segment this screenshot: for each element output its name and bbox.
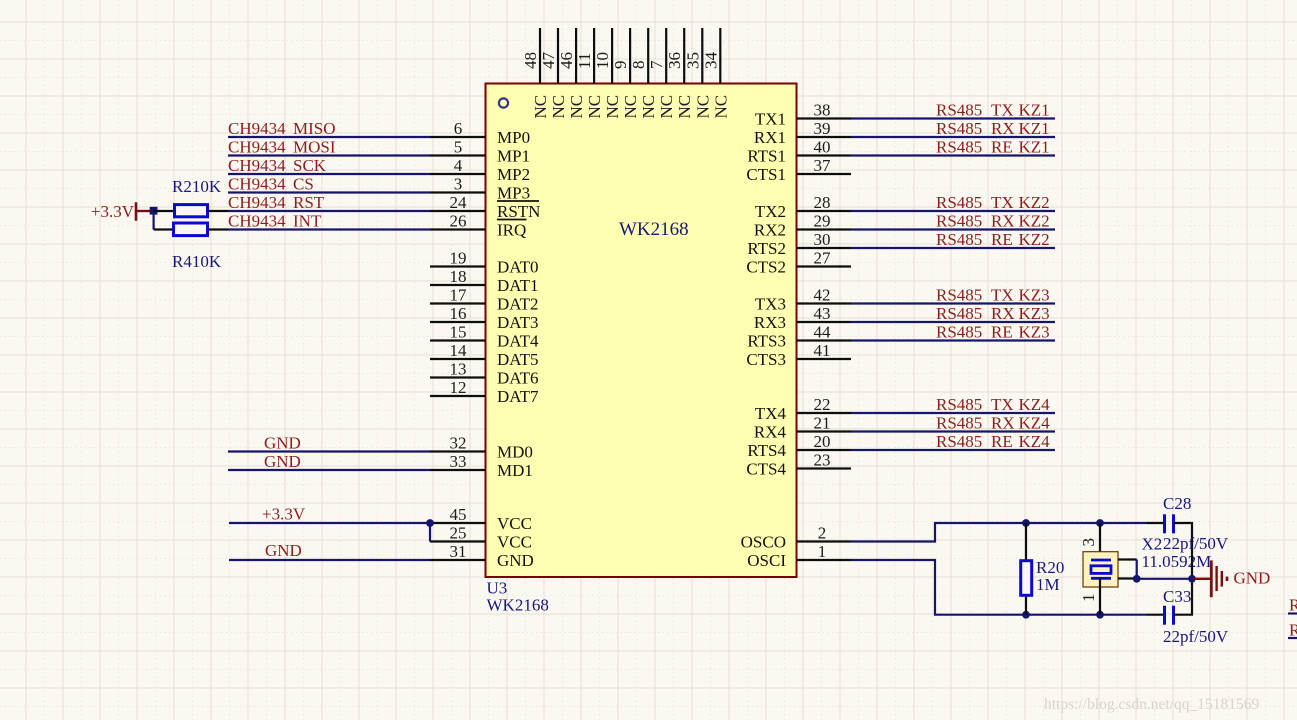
svg-text:RS485RXKZ3: RS485RXKZ3 (936, 304, 1050, 323)
svg-text:NC: NC (675, 95, 694, 119)
U3 pin 5 MP1 (left) (430, 138, 530, 166)
wire net RS485_RX_KZ4 (851, 430, 1055, 432)
svg-text:NC: NC (711, 95, 730, 119)
wire VCC45 to VCC25 (429, 523, 431, 542)
svg-text:1M: 1M (1036, 575, 1060, 594)
wire net CH9434_SCK (228, 173, 430, 175)
svg-text:39: 39 (814, 119, 831, 138)
U3 pin 25 VCC (left) (430, 524, 532, 552)
crystal X2 case pin upper (1118, 558, 1137, 560)
U3 pin 15 DAT4 (left) (430, 323, 539, 351)
U3 pin 24 RSTN (left) (430, 193, 540, 221)
wire net CH9434_RST (228, 210, 430, 212)
U3 pin 20 RTS4 (right) (747, 432, 851, 460)
wire net RS485_TX_KZ1 (851, 117, 1055, 119)
svg-text:10: 10 (593, 52, 612, 69)
U3 pin 36 (NC, top) (665, 28, 694, 119)
svg-text:21: 21 (814, 414, 831, 433)
U3 pin 2 OSCO (right) (741, 524, 851, 552)
svg-text:47: 47 (539, 52, 558, 70)
svg-text:DAT3: DAT3 (497, 313, 539, 332)
U3 pin 9 (NC, top) (611, 28, 640, 119)
svg-text:46: 46 (557, 52, 576, 69)
svg-text:RS485TXKZ3: RS485TXKZ3 (936, 286, 1050, 305)
junction node +3.3V/R2/R4 (150, 207, 158, 215)
U3 pin 42 TX3 (right) (755, 286, 851, 314)
svg-text:NC: NC (549, 95, 568, 119)
svg-text:14: 14 (450, 341, 468, 360)
svg-text:TX3: TX3 (755, 295, 786, 314)
svg-text:CTS3: CTS3 (746, 350, 786, 369)
svg-text:RS485REKZ2: RS485REKZ2 (936, 230, 1050, 249)
wire net RS485_TX_KZ4 (851, 412, 1055, 414)
svg-text:DAT5: DAT5 (497, 350, 539, 369)
svg-text:37: 37 (814, 156, 832, 175)
wire net +3.3V to VCC (229, 522, 430, 524)
svg-text:RTS3: RTS3 (747, 332, 786, 351)
resistor R20 pin 2 (1025, 597, 1027, 615)
svg-text:GND: GND (1234, 569, 1271, 588)
svg-text:+3.3V: +3.3V (262, 505, 306, 524)
svg-text:17: 17 (450, 286, 468, 305)
svg-text:CTS2: CTS2 (746, 258, 786, 277)
resistor R2 pin 1 (154, 210, 173, 212)
svg-text:NC: NC (657, 95, 676, 119)
wire net GND to pin31 (229, 559, 430, 561)
crystal X2 pin 1 wire (1099, 578, 1101, 614)
svg-text:7: 7 (647, 60, 666, 69)
U3 pin 11 (NC, top) (575, 28, 604, 119)
U3 pin 7 (NC, top) (647, 28, 676, 119)
svg-text:22: 22 (814, 395, 831, 414)
U3 pin 13 DAT6 (left) (430, 360, 539, 388)
U3 pin 12 DAT7 (left) (430, 378, 539, 406)
U3 pin 48 (NC, top) (521, 28, 550, 119)
svg-text:11.0592M: 11.0592M (1142, 552, 1212, 571)
svg-text:DAT7: DAT7 (497, 387, 539, 406)
svg-text:X2: X2 (1142, 535, 1163, 554)
resistor R2 body (175, 205, 208, 217)
svg-text:TX1: TX1 (755, 110, 786, 129)
U3 pin 3 MP3 (left) (430, 175, 530, 203)
U3 pin 40 RTS1 (right) (747, 138, 851, 166)
crystal X2 pin 3 wire (1099, 523, 1101, 560)
U3 pin 26 IRQ (left) (430, 212, 527, 240)
wire net RS485_RE_KZ2 (851, 247, 1055, 249)
svg-text:RTS4: RTS4 (747, 441, 786, 460)
wire net CH9434_MOSI (228, 154, 430, 156)
U3 pin 47 (NC, top) (539, 28, 568, 119)
svg-text:43: 43 (814, 304, 831, 323)
svg-text:29: 29 (814, 212, 831, 231)
wire net RS485_RE_KZ3 (851, 339, 1055, 341)
U3 pin 16 DAT3 (left) (430, 304, 539, 332)
svg-text:22pf/50V: 22pf/50V (1163, 627, 1229, 646)
svg-text:GND: GND (264, 434, 301, 453)
svg-text:33: 33 (450, 452, 467, 471)
U3 pin 41 CTS3 (right) (746, 341, 851, 369)
capacitor C28 pin 2 (1174, 523, 1192, 579)
svg-text:RS485RXKZ2: RS485RXKZ2 (936, 212, 1050, 231)
svg-text:R: R (1289, 596, 1297, 615)
resistor R4 pin 2 (209, 228, 228, 230)
junction node X2 case (1133, 575, 1141, 583)
svg-text:NC: NC (639, 95, 658, 119)
svg-text:OSCO: OSCO (741, 533, 786, 552)
IC U3 WK2168 body (486, 84, 797, 578)
svg-text:31: 31 (450, 542, 467, 561)
svg-text:NC: NC (567, 95, 586, 119)
svg-text:12: 12 (450, 378, 467, 397)
wire net CH9434_CS (228, 191, 430, 193)
svg-text:34: 34 (701, 52, 720, 70)
U3 pin 30 RTS2 (right) (747, 230, 851, 258)
svg-text:CH9434MOSI: CH9434MOSI (228, 138, 336, 157)
svg-text:CH9434MISO: CH9434MISO (228, 119, 336, 138)
svg-text:NC: NC (531, 95, 550, 119)
svg-text:https://blog.csdn.net/qq_15181: https://blog.csdn.net/qq_15181569 (1044, 696, 1260, 713)
svg-text:RS485TXKZ2: RS485TXKZ2 (936, 193, 1050, 212)
svg-text:4: 4 (454, 156, 463, 175)
U3 pin 34 (NC, top) (701, 28, 730, 119)
U3 pin 22 TX4 (right) (755, 395, 851, 423)
svg-text:CH9434CS: CH9434CS (228, 175, 314, 194)
svg-text:MP3: MP3 (497, 184, 530, 203)
svg-text:MD1: MD1 (497, 461, 533, 480)
U3 pin 37 CTS1 (right) (746, 156, 851, 184)
svg-text:35: 35 (683, 52, 702, 69)
svg-text:RX1: RX1 (754, 128, 786, 147)
wire net CH9434_INT (228, 228, 430, 230)
junction node GND rail (1188, 575, 1196, 583)
svg-text:RS485REKZ1: RS485REKZ1 (936, 138, 1050, 157)
svg-text:32: 32 (450, 434, 467, 453)
resistor R20 body (1021, 561, 1032, 596)
svg-text:48: 48 (521, 52, 540, 69)
wire net RS485_TX_KZ2 (851, 210, 1055, 212)
crystal X2 symbol plates (1091, 559, 1111, 562)
resistor R4 pin 1 (154, 228, 172, 230)
svg-text:CH9434INT: CH9434INT (228, 212, 322, 231)
U3 pin 44 RTS3 (right) (747, 323, 851, 351)
svg-text:WK2168: WK2168 (487, 596, 549, 615)
wire net RS485_RE_KZ1 (851, 154, 1055, 156)
capacitor C28 pin 1 (1147, 522, 1164, 524)
U3 pin 18 DAT1 (left) (430, 267, 539, 295)
power port +3.3V (left) (91, 202, 151, 221)
svg-text:GND: GND (265, 541, 302, 560)
svg-text:15: 15 (450, 323, 467, 342)
wire net GND (pin at y=451) (228, 450, 430, 452)
U3 pin 29 RX2 (right) (754, 212, 851, 240)
svg-text:RS485TXKZ1: RS485TXKZ1 (936, 101, 1050, 120)
svg-text:11: 11 (575, 53, 594, 69)
capacitor C33 pin 1 (1147, 614, 1164, 616)
ground symbol bars (1211, 560, 1227, 597)
U3 pin 38 TX1 (right) (755, 101, 851, 129)
clipped wire (right edge, upper) (1288, 612, 1297, 614)
svg-text:DAT0: DAT0 (497, 258, 539, 277)
U3 pin 33 MD1 (left) (430, 452, 533, 480)
svg-text:22pf/50V: 22pf/50V (1163, 534, 1229, 553)
U3 pin 6 MP0 (left) (430, 119, 530, 147)
svg-text:NC: NC (603, 95, 622, 119)
svg-text:1: 1 (818, 542, 827, 561)
crystal X2 symbol rectangle (1091, 566, 1111, 574)
svg-text:TX4: TX4 (755, 404, 787, 423)
clipped wire (right edge, lower) (1288, 637, 1297, 639)
svg-text:R410K: R410K (172, 252, 222, 271)
wire net RS485_TX_KZ3 (851, 302, 1055, 304)
svg-text:18: 18 (450, 267, 467, 286)
svg-text:RX2: RX2 (754, 221, 786, 240)
svg-text:28: 28 (814, 193, 831, 212)
svg-text:NC: NC (585, 95, 604, 119)
svg-text:42: 42 (814, 286, 831, 305)
junction node X2 pin1 (1096, 611, 1104, 619)
svg-text:27: 27 (814, 249, 832, 268)
capacitor C33 pin 2 (1174, 579, 1192, 615)
svg-text:38: 38 (814, 101, 831, 120)
junction node R20 bottom (1022, 611, 1030, 619)
svg-text:DAT6: DAT6 (497, 369, 539, 388)
svg-text:19: 19 (450, 249, 467, 268)
svg-text:CH9434SCK: CH9434SCK (228, 156, 327, 175)
svg-text:3: 3 (454, 175, 463, 194)
U3 pin 21 RX4 (right) (754, 414, 851, 442)
svg-text:CH9434RST: CH9434RST (228, 193, 325, 212)
U3 pin 39 RX1 (right) (754, 119, 851, 147)
svg-text:40: 40 (814, 138, 831, 157)
svg-text:MD0: MD0 (497, 443, 533, 462)
svg-text:C33: C33 (1163, 587, 1191, 606)
svg-text:RSTN: RSTN (497, 202, 540, 221)
U3 pin 27 CTS2 (right) (746, 249, 851, 277)
junction node X2 pin3 (1096, 519, 1104, 527)
resistor R4 body (174, 223, 208, 236)
svg-text:9: 9 (611, 61, 630, 70)
svg-text:MP2: MP2 (497, 165, 530, 184)
svg-text:8: 8 (629, 61, 648, 70)
svg-text:DAT4: DAT4 (497, 332, 539, 351)
svg-text:20: 20 (814, 432, 831, 451)
wire net RS485_RX_KZ3 (851, 321, 1055, 323)
U3 pin 45 VCC (left) (430, 505, 532, 533)
svg-text:TX2: TX2 (755, 202, 786, 221)
U3 pin 31 GND (left) (430, 542, 534, 570)
U3 pin 19 DAT0 (left) (430, 249, 539, 277)
svg-text:NC: NC (693, 95, 712, 119)
svg-text:13: 13 (450, 360, 467, 379)
junction node R20 top (1022, 519, 1030, 527)
svg-text:CTS1: CTS1 (746, 165, 786, 184)
U3 pin 4 MP2 (left) (430, 156, 530, 184)
svg-text:2: 2 (818, 524, 827, 543)
svg-text:DAT2: DAT2 (497, 295, 539, 314)
svg-text:+3.3V: +3.3V (91, 202, 135, 221)
svg-text:24: 24 (450, 193, 468, 212)
svg-text:RS485REKZ3: RS485REKZ3 (936, 323, 1050, 342)
U3 pin 17 DAT2 (left) (430, 286, 539, 314)
svg-text:IRQ: IRQ (497, 221, 526, 240)
U3 pin 35 (NC, top) (683, 28, 712, 119)
wire OSCI (851, 560, 1147, 615)
wire +3.3V down to R4 (153, 211, 155, 230)
svg-text:DAT1: DAT1 (497, 276, 539, 295)
U3 pin 28 TX2 (right) (755, 193, 851, 221)
svg-text:GND: GND (497, 551, 534, 570)
svg-text:GND: GND (264, 452, 301, 471)
svg-text:45: 45 (450, 505, 467, 524)
wire X2 case to GND (1137, 560, 1192, 579)
U3 pin 14 DAT5 (left) (430, 341, 539, 369)
wire net RS485_RX_KZ2 (851, 228, 1055, 230)
wire net GND (pin at y=470) (228, 469, 430, 471)
junction node VCC45/VCC25 (426, 519, 434, 527)
wire net CH9434_MISO (228, 136, 430, 138)
U3 pin 10 (NC, top) (593, 28, 622, 119)
svg-text:30: 30 (814, 230, 831, 249)
wire net RS485_RX_KZ1 (851, 136, 1055, 138)
capacitor C33 plates (1163, 606, 1166, 625)
capacitor C28 plates (1163, 514, 1166, 533)
svg-text:VCC: VCC (497, 533, 532, 552)
svg-text:NC: NC (621, 95, 640, 119)
U3 symbol circle mark (499, 98, 508, 107)
svg-text:23: 23 (814, 451, 831, 470)
svg-text:25: 25 (450, 524, 467, 543)
svg-text:36: 36 (665, 52, 684, 69)
svg-text:5: 5 (454, 138, 463, 157)
wire net RS485_RE_KZ4 (851, 449, 1055, 451)
svg-text:CTS4: CTS4 (746, 460, 786, 479)
svg-text:R: R (1289, 621, 1297, 640)
svg-text:RS485RXKZ1: RS485RXKZ1 (936, 119, 1050, 138)
svg-text:RX3: RX3 (754, 313, 786, 332)
U3 pin 8 (NC, top) (629, 28, 658, 119)
svg-text:41: 41 (814, 341, 831, 360)
svg-text:C28: C28 (1163, 494, 1191, 513)
svg-text:RS485RXKZ4: RS485RXKZ4 (936, 414, 1050, 433)
svg-text:44: 44 (814, 323, 832, 342)
svg-text:MP1: MP1 (497, 147, 530, 166)
U3 pin 46 (NC, top) (557, 28, 586, 119)
svg-text:3: 3 (1079, 538, 1098, 547)
svg-text:MP0: MP0 (497, 128, 530, 147)
svg-text:6: 6 (454, 119, 463, 138)
ground symbol stub (1194, 578, 1212, 580)
svg-text:RTS2: RTS2 (747, 239, 786, 258)
wire OSCO (851, 523, 1147, 542)
svg-text:RX4: RX4 (754, 423, 787, 442)
crystal X2 case pin lower (1118, 577, 1137, 579)
U3 pin 1 OSCI (right) (747, 542, 851, 570)
svg-text:VCC: VCC (497, 514, 532, 533)
crystal X2 body box (1083, 552, 1118, 587)
svg-text:OSCI: OSCI (747, 551, 786, 570)
svg-text:WK2168: WK2168 (619, 219, 689, 240)
svg-text:R210K: R210K (172, 177, 222, 196)
U3 pin 32 MD0 (left) (430, 434, 533, 462)
svg-text:26: 26 (450, 212, 467, 231)
resistor R20 pin 1 (1025, 523, 1027, 560)
svg-text:16: 16 (450, 304, 467, 323)
svg-text:RS485REKZ4: RS485REKZ4 (936, 432, 1050, 451)
U3 pin 23 CTS4 (right) (746, 451, 851, 479)
U3 pin 43 RX3 (right) (754, 304, 851, 332)
svg-text:RTS1: RTS1 (747, 147, 786, 166)
svg-text:1: 1 (1079, 594, 1098, 603)
resistor R2 pin 2 (209, 210, 228, 212)
svg-text:RS485TXKZ4: RS485TXKZ4 (936, 395, 1050, 414)
